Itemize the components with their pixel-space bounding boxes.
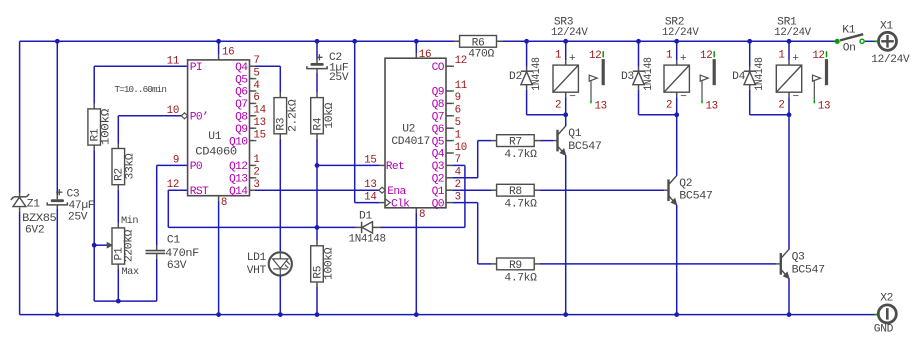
svg-text:14: 14 — [364, 191, 376, 203]
svg-text:Q10: Q10 — [229, 136, 248, 148]
svg-text:63V: 63V — [167, 260, 187, 272]
svg-text:4: 4 — [253, 80, 259, 92]
svg-text:−: − — [680, 92, 687, 104]
svg-text:RST: RST — [190, 186, 209, 198]
svg-text:BC547: BC547 — [792, 264, 825, 276]
svg-text:CD4017: CD4017 — [391, 136, 430, 148]
svg-text:2: 2 — [778, 99, 784, 111]
svg-text:10: 10 — [167, 105, 179, 117]
svg-text:15: 15 — [253, 129, 265, 141]
svg-text:Q9: Q9 — [432, 87, 444, 99]
svg-text:9: 9 — [455, 92, 461, 104]
svg-text:BC547: BC547 — [568, 141, 601, 153]
svg-text:Q3: Q3 — [432, 161, 445, 173]
svg-text:Q2: Q2 — [432, 174, 444, 186]
svg-text:2: 2 — [253, 167, 259, 179]
svg-text:11: 11 — [167, 55, 179, 67]
svg-text:Q13: Q13 — [229, 174, 248, 186]
svg-text:Q0: Q0 — [432, 198, 445, 210]
svg-text:12/24V: 12/24V — [774, 27, 811, 39]
svg-text:Q5: Q5 — [235, 74, 248, 86]
svg-text:R8: R8 — [509, 186, 522, 198]
svg-text:3: 3 — [455, 191, 461, 203]
svg-text:6: 6 — [253, 92, 259, 104]
svg-text:PI: PI — [190, 62, 202, 74]
svg-text:1: 1 — [455, 129, 461, 141]
svg-text:1N4148: 1N4148 — [643, 57, 655, 91]
svg-text:4.7kΩ: 4.7kΩ — [504, 272, 537, 284]
svg-text:33kΩ: 33kΩ — [125, 153, 137, 179]
svg-text:R9: R9 — [509, 260, 522, 272]
svg-text:12: 12 — [589, 50, 601, 62]
svg-text:9: 9 — [173, 154, 179, 166]
svg-text:25V: 25V — [68, 212, 88, 224]
svg-text:14: 14 — [253, 105, 265, 117]
svg-text:X1: X1 — [880, 21, 893, 33]
svg-text:Q1: Q1 — [568, 128, 581, 140]
svg-text:4.7kΩ: 4.7kΩ — [504, 199, 537, 211]
svg-text:+: + — [569, 53, 576, 65]
svg-text:Q9: Q9 — [235, 124, 247, 136]
svg-text:P0’: P0’ — [190, 112, 208, 124]
svg-text:Q8: Q8 — [235, 112, 248, 124]
svg-text:5: 5 — [455, 117, 461, 129]
svg-text:T=10..60min: T=10..60min — [115, 84, 167, 95]
svg-text:12/24V: 12/24V — [551, 27, 588, 39]
svg-text:+: + — [680, 53, 687, 65]
svg-text:8: 8 — [221, 197, 227, 209]
svg-text:4: 4 — [455, 167, 461, 179]
svg-text:+: + — [792, 53, 799, 65]
svg-text:7: 7 — [253, 55, 259, 67]
svg-text:Q12: Q12 — [229, 161, 247, 173]
svg-text:U1: U1 — [208, 131, 221, 143]
svg-text:Z1: Z1 — [27, 199, 40, 211]
svg-text:5: 5 — [253, 67, 259, 79]
svg-text:Q4: Q4 — [235, 62, 248, 74]
svg-text:Q2: Q2 — [679, 178, 692, 190]
svg-text:Ena: Ena — [387, 186, 406, 198]
svg-text:10: 10 — [455, 142, 467, 154]
svg-text:13: 13 — [595, 100, 607, 112]
svg-text:100kΩ: 100kΩ — [101, 108, 113, 145]
svg-text:12: 12 — [812, 50, 824, 62]
svg-text:X2: X2 — [880, 293, 893, 305]
svg-text:1: 1 — [666, 50, 672, 62]
svg-text:2: 2 — [666, 99, 672, 111]
svg-text:1: 1 — [253, 154, 259, 166]
svg-text:1: 1 — [555, 50, 561, 62]
svg-text:D3: D3 — [621, 71, 634, 83]
svg-text:R4: R4 — [313, 117, 325, 130]
svg-text:3: 3 — [253, 179, 259, 191]
svg-text:6V2: 6V2 — [25, 225, 44, 237]
svg-text:12: 12 — [455, 55, 467, 67]
svg-text:13: 13 — [364, 179, 376, 191]
svg-text:VHT: VHT — [247, 265, 267, 277]
svg-text:−: − — [569, 92, 576, 104]
svg-text:P0: P0 — [190, 161, 203, 173]
svg-text:7: 7 — [455, 154, 461, 166]
svg-text:On: On — [843, 43, 856, 55]
svg-text:C3: C3 — [67, 188, 80, 200]
svg-text:Q7: Q7 — [432, 112, 444, 124]
svg-text:1N4148: 1N4148 — [349, 234, 387, 246]
svg-text:C1: C1 — [167, 234, 180, 246]
svg-text:GND: GND — [874, 324, 894, 336]
svg-text:Q5: Q5 — [432, 136, 445, 148]
svg-text:D4: D4 — [732, 71, 745, 83]
svg-text:Ret: Ret — [386, 161, 404, 173]
svg-text:BC547: BC547 — [679, 191, 712, 203]
svg-text:8: 8 — [419, 209, 425, 221]
svg-text:16: 16 — [419, 49, 431, 61]
svg-text:16: 16 — [222, 46, 234, 58]
svg-text:1: 1 — [778, 50, 784, 62]
svg-text:Clk: Clk — [391, 198, 410, 210]
svg-text:D2: D2 — [509, 71, 522, 83]
svg-text:D1: D1 — [359, 211, 372, 223]
svg-text:R7: R7 — [509, 137, 522, 149]
svg-text:Q6: Q6 — [235, 87, 248, 99]
svg-text:1N4148: 1N4148 — [531, 57, 543, 91]
svg-text:13: 13 — [706, 100, 718, 112]
svg-text:470Ω: 470Ω — [468, 48, 494, 60]
svg-text:12: 12 — [167, 179, 179, 191]
svg-text:Q3: Q3 — [792, 252, 805, 264]
svg-text:47µF: 47µF — [69, 200, 95, 212]
svg-text:220kΩ: 220kΩ — [124, 229, 136, 262]
svg-text:Max: Max — [122, 266, 139, 278]
svg-text:10kΩ: 10kΩ — [324, 102, 336, 128]
svg-text:15: 15 — [364, 154, 376, 166]
svg-text:25V: 25V — [329, 72, 349, 84]
svg-text:BZX85: BZX85 — [22, 213, 57, 225]
svg-text:LD1: LD1 — [247, 252, 267, 264]
svg-text:12/24V: 12/24V — [871, 54, 910, 66]
svg-text:Q8: Q8 — [432, 99, 445, 111]
svg-text:Q6: Q6 — [432, 124, 445, 136]
svg-text:2: 2 — [455, 179, 461, 191]
svg-text:K1: K1 — [842, 24, 855, 36]
svg-text:4.7kΩ: 4.7kΩ — [504, 149, 537, 161]
svg-text:2.2kΩ: 2.2kΩ — [287, 99, 299, 132]
svg-text:Q7: Q7 — [235, 99, 247, 111]
svg-text:6: 6 — [455, 105, 461, 117]
svg-text:13: 13 — [253, 117, 265, 129]
svg-text:11: 11 — [455, 80, 467, 92]
svg-text:Q4: Q4 — [432, 149, 445, 161]
svg-text:R3: R3 — [276, 117, 288, 130]
svg-text:100kΩ: 100kΩ — [323, 247, 335, 280]
svg-text:Min: Min — [121, 215, 138, 227]
svg-text:1N4148: 1N4148 — [754, 57, 766, 91]
svg-text:470nF: 470nF — [165, 248, 199, 260]
svg-text:Q1: Q1 — [432, 186, 445, 198]
svg-text:13: 13 — [818, 100, 830, 112]
svg-text:Q14: Q14 — [229, 186, 248, 198]
svg-text:U2: U2 — [402, 124, 415, 136]
svg-text:CD4060: CD4060 — [195, 147, 237, 159]
svg-text:2: 2 — [555, 99, 561, 111]
svg-text:12/24V: 12/24V — [662, 27, 699, 39]
svg-text:−: − — [793, 92, 800, 104]
svg-text:12: 12 — [700, 50, 712, 62]
svg-text:CO: CO — [432, 62, 445, 74]
